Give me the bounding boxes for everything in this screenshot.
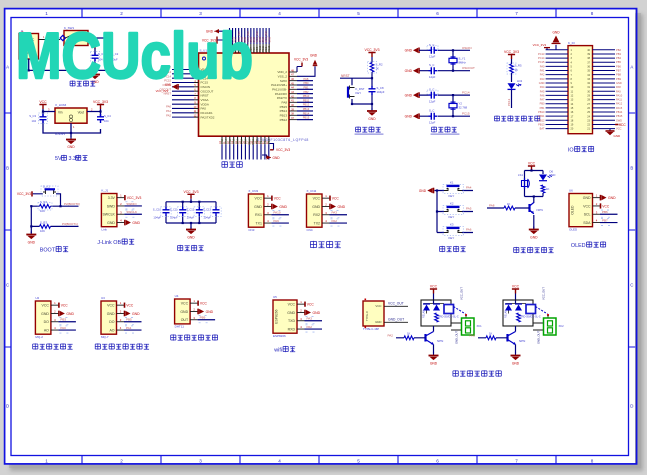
- svg-text:PB4: PB4: [616, 56, 621, 60]
- caption key circuit: [440, 246, 445, 252]
- svg-text:104pF: 104pF: [377, 90, 385, 94]
- alarm: power VCC: [528, 166, 535, 171]
- svg-text:AO: AO: [44, 328, 49, 332]
- svg-text:wifi: wifi: [273, 348, 282, 354]
- svg-text:BOOT: BOOT: [40, 248, 56, 254]
- terminal block XK2: [544, 318, 565, 335]
- svg-text:SRD-05VDC-SL-C: SRD-05VDC-SL-C: [520, 316, 541, 319]
- svg-text:C: C: [6, 283, 9, 288]
- wire: [511, 59, 513, 108]
- switch K_SW1: [60, 26, 88, 51]
- svg-text:SWCLK: SWCLK: [126, 210, 137, 214]
- svg-text:VCC_3V3: VCC_3V3: [276, 148, 290, 152]
- svg-text:VCC: VCC: [602, 204, 610, 208]
- caption crystal circuit: [432, 127, 437, 133]
- svg-text:PA1: PA1: [540, 69, 545, 73]
- svg-text:104pF: 104pF: [153, 216, 161, 220]
- MCU right pins: [271, 69, 313, 122]
- alarm wires: [525, 171, 544, 229]
- switch S_K1: [33, 185, 61, 207]
- svg-text:104pF: 104pF: [170, 216, 178, 220]
- svg-text:P2(BOOT0): P2(BOOT0): [64, 202, 80, 206]
- svg-text:PA4: PA4: [466, 186, 472, 190]
- base resistor 1K: [470, 332, 508, 340]
- svg-text:PB0: PB0: [540, 102, 545, 106]
- svg-text:1K: 1K: [546, 187, 550, 191]
- svg-text:PB9: PB9: [200, 316, 206, 320]
- svg-text:BAT: BAT: [540, 127, 545, 131]
- diode D?b: [433, 304, 440, 311]
- svg-text:8: 8: [591, 459, 594, 464]
- relay power VCC: [430, 289, 437, 294]
- junction: [190, 201, 192, 203]
- svg-text:PA3: PA3: [470, 333, 476, 337]
- svg-text:GND: GND: [430, 361, 438, 365]
- wire: [515, 294, 517, 304]
- svg-text:3: 3: [199, 11, 202, 16]
- svg-text:Vout: Vout: [78, 111, 84, 115]
- svg-text:LS1: LS1: [518, 173, 523, 177]
- svg-text:PB14: PB14: [616, 110, 623, 114]
- svg-text:OSCIN: OSCIN: [462, 46, 472, 50]
- base resistor 1K: [388, 332, 426, 340]
- svg-text:GND: GND: [512, 361, 520, 365]
- svg-text:VCC_3V3: VCC_3V3: [364, 48, 379, 52]
- svg-text:K_IO: K_IO: [568, 41, 576, 45]
- module U3 CO sensor: [101, 296, 142, 339]
- svg-text:PB15: PB15: [303, 116, 310, 120]
- keys: gnd arrow: [419, 188, 434, 194]
- svg-text:GND: GND: [279, 205, 287, 209]
- svg-text:PB14: PB14: [303, 111, 310, 115]
- crystal S_Y1: [449, 56, 466, 64]
- wire: [419, 95, 470, 116]
- svg-text:VCC: VCC: [288, 302, 296, 306]
- svg-text:VCC: VCC: [619, 123, 626, 127]
- svg-text:NPN: NPN: [537, 208, 543, 212]
- svg-text:VCC_3V3: VCC_3V3: [127, 196, 142, 200]
- caption filter circuit: [178, 245, 183, 251]
- svg-text:GND: GND: [41, 312, 49, 316]
- svg-text:PB7: PB7: [602, 218, 608, 222]
- gnd arrow: [405, 48, 419, 54]
- ground: [533, 227, 535, 230]
- svg-text:PA8: PA8: [489, 204, 495, 208]
- svg-text:PB10: PB10: [303, 94, 310, 98]
- svg-text:K2: K2: [450, 202, 454, 206]
- capacitor S_C2: [105, 52, 119, 62]
- svg-text:4: 4: [278, 459, 281, 464]
- svg-text:VCC: VCC: [375, 304, 381, 308]
- svg-text:PB13: PB13: [303, 107, 310, 111]
- svg-text:PB3: PB3: [616, 52, 621, 56]
- svg-text:GND: GND: [187, 235, 195, 239]
- svg-text:GND: GND: [368, 117, 376, 121]
- svg-text:GND: GND: [375, 320, 381, 324]
- svg-text:OUT: OUT: [181, 318, 189, 322]
- svg-text:SWD: SWD: [107, 204, 116, 208]
- svg-text:NPN: NPN: [519, 339, 525, 343]
- svg-text:VCC: VCC: [528, 162, 536, 166]
- relay coil square: [444, 305, 454, 314]
- svg-text:S_C10: S_C10: [153, 207, 162, 211]
- svg-text:S_K1: S_K1: [43, 185, 50, 189]
- svg-text:PA9: PA9: [616, 89, 621, 93]
- svg-text:AO: AO: [109, 328, 114, 332]
- MCU U1 STM32F103C8T6: [199, 53, 290, 136]
- svg-text:PB5: PB5: [616, 60, 621, 64]
- MCU left pins: [160, 66, 215, 120]
- svg-text:KEY: KEY: [449, 215, 455, 219]
- resistor S_R5: [507, 63, 522, 74]
- terminal block XK1: [462, 318, 483, 335]
- svg-text:A: A: [630, 65, 633, 70]
- connector K_J1 J-Link: [101, 189, 141, 232]
- filter: power VCC_3V3: [187, 194, 194, 199]
- svg-text:GND: GND: [254, 205, 262, 209]
- svg-text:PA15: PA15: [616, 106, 623, 110]
- push button K2: [437, 202, 473, 219]
- svg-text:VCC: VCC: [200, 302, 208, 306]
- svg-text:NPN: NPN: [437, 339, 443, 343]
- power node VCC: [39, 105, 46, 110]
- resistor S_R4 row1: [31, 200, 78, 213]
- svg-text:A: A: [6, 65, 9, 70]
- junction: [42, 110, 44, 112]
- svg-text:GND: GND: [132, 221, 140, 225]
- svg-text:GND: GND: [614, 134, 622, 138]
- svg-text:VCC_OUT: VCC_OUT: [542, 287, 546, 300]
- wire: [433, 294, 435, 304]
- svg-text:VCC: VCC: [107, 303, 115, 307]
- svg-text:OLED: OLED: [571, 205, 575, 215]
- svg-text:PA2: PA2: [332, 219, 338, 223]
- ground: [70, 137, 72, 140]
- svg-text:RELAY: RELAY: [423, 310, 426, 318]
- svg-text:PA1: PA1: [166, 109, 171, 113]
- caption program running indicator: [494, 116, 499, 122]
- svg-text:B: B: [630, 166, 633, 171]
- svg-text:GND: GND: [552, 31, 560, 35]
- resistor S_R3 row2: [31, 220, 78, 233]
- wire power jack to switch: [39, 39, 61, 41]
- svg-text:PB15: PB15: [616, 114, 623, 118]
- svg-text:KEY: KEY: [356, 91, 362, 95]
- switch arm: [454, 307, 466, 315]
- vcc_3v3 at MCU right: [294, 57, 308, 72]
- svg-text:TYPE-C: TYPE-C: [365, 311, 369, 321]
- capacitor S_C11: [170, 207, 188, 220]
- svg-text:S_C11: S_C11: [170, 207, 179, 211]
- svg-text:GND: GND: [287, 311, 295, 315]
- gnd label top of MCU: [206, 29, 225, 41]
- svg-text:PA12: PA12: [616, 102, 623, 106]
- svg-text:PA0: PA0: [60, 326, 66, 330]
- svg-text:GND: GND: [268, 37, 271, 43]
- capacitor S_C8: [368, 86, 385, 95]
- reset wires: [340, 57, 372, 110]
- transistor Q3 NPN: [508, 326, 526, 354]
- svg-text:12pF: 12pF: [429, 120, 436, 124]
- diode D?b: [515, 304, 522, 311]
- svg-text:PB12: PB12: [538, 118, 545, 122]
- svg-text:S_R3: S_R3: [40, 220, 47, 224]
- svg-text:Vin: Vin: [58, 111, 63, 115]
- svg-text:104: 104: [104, 119, 109, 123]
- gnd arrow: [405, 68, 419, 74]
- svg-text:104pF: 104pF: [187, 216, 195, 220]
- capacitor S_C12: [186, 207, 204, 220]
- svg-text:PC15: PC15: [538, 60, 545, 64]
- svg-text:PC14: PC14: [538, 56, 545, 60]
- svg-text:5: 5: [357, 459, 360, 464]
- svg-text:PA0: PA0: [166, 105, 171, 109]
- svg-text:VCC: VCC: [181, 301, 189, 305]
- caption main chip: [222, 161, 228, 168]
- svg-text:U3: U3: [101, 296, 105, 300]
- svg-text:3: 3: [199, 459, 202, 464]
- capacitor S_C3: [29, 113, 47, 124]
- svg-text:OLED: OLED: [571, 243, 586, 249]
- svg-text:GND: GND: [107, 221, 115, 225]
- vcc bottom-right of header: [615, 123, 626, 127]
- svg-text:4: 4: [278, 11, 281, 16]
- svg-text:VCC_3V3: VCC_3V3: [93, 100, 108, 104]
- svg-text:S_C: S_C: [429, 109, 434, 113]
- svg-text:CN3: CN3: [248, 228, 254, 232]
- svg-text:OSCOUT: OSCOUT: [462, 66, 475, 70]
- svg-text:PA10: PA10: [273, 211, 280, 215]
- LED LD2: [507, 79, 523, 90]
- svg-text:6: 6: [436, 11, 439, 16]
- svg-text:PB5: PB5: [126, 318, 132, 322]
- svg-text:PB12: PB12: [303, 103, 310, 107]
- svg-text:U2: U2: [35, 296, 39, 300]
- vcc_3v3 label top of MCU: [202, 37, 225, 54]
- svg-text:GND: GND: [616, 81, 622, 85]
- svg-text:STM32F103C8T6_LQFP48: STM32F103C8T6_LQFP48: [257, 138, 309, 142]
- svg-text:1K: 1K: [376, 67, 380, 71]
- svg-text:GND: GND: [132, 312, 140, 316]
- svg-text:GND: GND: [107, 312, 115, 316]
- buzzer LS1: [518, 173, 529, 189]
- svg-text:VCC_OUT: VCC_OUT: [388, 302, 404, 306]
- caption CO detect module: [95, 343, 100, 349]
- svg-text:VCC_3V3: VCC_3V3: [294, 57, 308, 61]
- svg-text:CN4: CN4: [307, 228, 313, 232]
- svg-text:GND_OUT: GND_OUT: [388, 318, 404, 322]
- svg-text:PB3: PB3: [60, 318, 66, 322]
- svg-text:PB1: PB1: [303, 85, 309, 89]
- svg-text:S_C: S_C: [429, 63, 434, 67]
- capacitor 32.768a: [427, 88, 438, 104]
- svg-text:PB13: PB13: [538, 122, 545, 126]
- svg-text:8MHz: 8MHz: [459, 60, 467, 64]
- svg-text:S_C: S_C: [429, 88, 434, 92]
- crystal Y2: [449, 101, 467, 109]
- wire to connector: [533, 315, 548, 330]
- capacitor S_C1: [91, 52, 106, 62]
- svg-text:32.768: 32.768: [459, 105, 468, 109]
- relay coil square: [526, 305, 536, 314]
- svg-text:D: D: [630, 404, 633, 409]
- MCU bottom pins: [219, 136, 271, 159]
- svg-text:GND: GND: [539, 81, 545, 85]
- svg-text:PA10: PA10: [616, 93, 623, 97]
- svg-text:SCL: SCL: [584, 213, 591, 217]
- ground: [515, 353, 517, 356]
- svg-text:PB6: PB6: [602, 210, 608, 214]
- svg-text:S_C: S_C: [429, 43, 434, 47]
- svg-text:PA4: PA4: [540, 85, 545, 89]
- svg-text:NRST: NRST: [341, 74, 350, 78]
- svg-text:VCC: VCC: [61, 304, 69, 308]
- LED indicator: power VCC_3V3: [508, 55, 515, 60]
- svg-text:XK1: XK1: [477, 324, 483, 328]
- svg-text:MCUclub: MCUclub: [16, 19, 253, 92]
- svg-text:IO: IO: [568, 148, 574, 154]
- connector X_CN3 serial1: [248, 189, 289, 232]
- gnd arrow at MCU right: [297, 53, 318, 76]
- connector TYPE-C power out: [363, 299, 408, 332]
- wire to connector: [451, 315, 466, 330]
- wire left vertical: [30, 206, 32, 233]
- caption relay control circuit: [453, 370, 458, 376]
- svg-text:2: 2: [120, 11, 123, 16]
- junction: [371, 77, 373, 79]
- led D6: [539, 170, 555, 181]
- svg-text:GND: GND: [583, 196, 591, 200]
- push button K3: [437, 223, 473, 240]
- svg-text:VCC: VCC: [126, 304, 134, 308]
- svg-text:104pF: 104pF: [203, 216, 211, 220]
- svg-text:PB2: PB2: [616, 48, 621, 52]
- reset: power node VCC_3V3: [368, 53, 375, 58]
- svg-text:S_C12: S_C12: [186, 207, 195, 211]
- svg-text:PC15: PC15: [462, 112, 470, 116]
- svg-text:GND: GND: [273, 156, 281, 160]
- connector U6 OLED: [569, 189, 618, 232]
- svg-text:PB9: PB9: [616, 77, 621, 81]
- svg-text:12pF: 12pF: [429, 75, 436, 79]
- svg-text:S_C3: S_C3: [29, 114, 36, 118]
- svg-text:PA2: PA2: [307, 325, 313, 329]
- svg-text:1K: 1K: [407, 332, 411, 336]
- svg-text:TXD: TXD: [288, 319, 295, 323]
- svg-text:12pF: 12pF: [429, 99, 436, 103]
- svg-text:ESP8266: ESP8266: [275, 309, 279, 323]
- svg-text:RXD: RXD: [288, 327, 296, 331]
- svg-text:SRD-05VDC-SL-C: SRD-05VDC-SL-C: [438, 316, 459, 319]
- ground: [190, 227, 192, 230]
- svg-text:OLED: OLED: [569, 227, 578, 231]
- ground of power circuit: [94, 72, 96, 75]
- coil resistor: [435, 313, 439, 322]
- module U4 DHT11: [175, 294, 216, 328]
- svg-text:PC13: PC13: [507, 98, 511, 106]
- svg-text:PA3: PA3: [540, 77, 545, 81]
- svg-text:PA3: PA3: [307, 317, 313, 321]
- wire switch output rail: [29, 38, 109, 70]
- caption temp-humidity module: [171, 334, 176, 340]
- svg-text:GND: GND: [310, 53, 318, 57]
- svg-text:2: 2: [120, 459, 123, 464]
- svg-text:K1: K1: [450, 181, 454, 185]
- svg-text:U4: U4: [175, 294, 179, 298]
- svg-text:P3(BOOT1): P3(BOOT1): [62, 222, 78, 226]
- svg-text:LD2: LD2: [517, 79, 523, 83]
- svg-text:Link: Link: [101, 227, 107, 231]
- transistor Q1 NPN: [530, 203, 543, 214]
- relay body K2: [503, 300, 533, 326]
- svg-text:D: D: [6, 404, 9, 409]
- svg-text:VCC_3V3: VCC_3V3: [533, 43, 547, 47]
- keys vertical wire: [435, 191, 438, 233]
- svg-text:PB7: PB7: [616, 69, 621, 73]
- svg-text:MQ-2: MQ-2: [35, 335, 43, 339]
- svg-text:DHT11: DHT11: [175, 325, 185, 329]
- svg-text:SDA: SDA: [583, 221, 591, 225]
- svg-text:K3: K3: [450, 223, 454, 227]
- header K_IO 2x20: [538, 41, 623, 134]
- power node VCC: [91, 44, 98, 49]
- svg-text:1K: 1K: [507, 202, 511, 206]
- capacitor S_C4: [97, 114, 111, 123]
- svg-text:GND: GND: [67, 145, 75, 149]
- caption serial circuit: [310, 241, 316, 248]
- svg-text:PB6: PB6: [616, 64, 621, 68]
- svg-text:VCC_3V3: VCC_3V3: [183, 190, 198, 194]
- svg-text:PB11: PB11: [538, 114, 545, 118]
- svg-text:PA8: PA8: [304, 77, 309, 81]
- svg-text:PA1: PA1: [126, 326, 132, 330]
- ground: [371, 108, 373, 111]
- svg-text:VCC: VCC: [255, 196, 263, 200]
- svg-text:1: 1: [45, 11, 48, 16]
- svg-text:U6: U6: [569, 189, 573, 193]
- svg-text:PA7: PA7: [540, 98, 545, 102]
- MCU left gnd arrow: [177, 84, 179, 90]
- svg-text:VCC: VCC: [313, 196, 321, 200]
- svg-text:VCC_3V3: VCC_3V3: [17, 192, 31, 196]
- MCU top pins: [229, 28, 272, 53]
- svg-text:GND_OUT: GND_OUT: [455, 331, 459, 344]
- svg-text:PA5: PA5: [466, 207, 472, 211]
- svg-text:VCC: VCC: [332, 197, 340, 201]
- svg-text:PB13: PB13: [268, 45, 271, 52]
- svg-text:PA2: PA2: [540, 73, 545, 77]
- svg-text:PA2: PA2: [388, 333, 394, 337]
- svg-text:B: B: [6, 166, 9, 171]
- connector X_CN4 serial2: [307, 189, 348, 232]
- svg-text:8: 8: [591, 11, 594, 16]
- svg-text:J-Link OB: J-Link OB: [97, 240, 121, 246]
- svg-text:VCC: VCC: [307, 303, 315, 307]
- svg-text:GND: GND: [405, 49, 413, 53]
- svg-text:PB11: PB11: [303, 98, 310, 102]
- svg-text:VCC: VCC: [430, 285, 438, 289]
- svg-text:GND: GND: [419, 189, 427, 193]
- svg-text:TX2: TX2: [314, 221, 320, 225]
- connector J1 power jack: [19, 29, 39, 61]
- transistor Q2 NPN: [426, 326, 444, 354]
- svg-text:PA9: PA9: [273, 219, 279, 223]
- svg-text:PB0: PB0: [303, 81, 309, 85]
- svg-text:GND: GND: [530, 235, 538, 239]
- caption reset circuit: [356, 127, 361, 133]
- svg-text:GND: GND: [313, 311, 321, 315]
- svg-text:VCC: VCC: [274, 197, 282, 201]
